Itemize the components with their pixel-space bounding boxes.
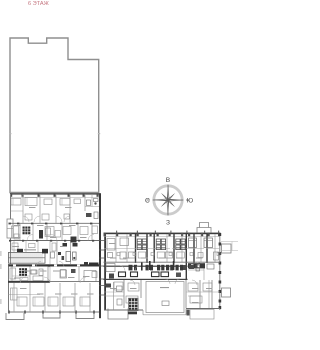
- bath cluster right-mid: [58, 252, 99, 282]
- left wing extra texture: [12, 228, 55, 281]
- right wing room labels: [109, 243, 213, 303]
- compass ring: [154, 186, 182, 214]
- svg-text:Ю: Ю: [187, 197, 194, 204]
- compass axis ticks: [147, 199, 190, 201]
- left wing v-walls corridor zone: [12, 241, 79, 281]
- right wing wardrobe clusters: [137, 239, 185, 258]
- bath cluster top-right: [64, 194, 98, 219]
- left wing room labels: [13, 207, 94, 295]
- svg-text:С: С: [145, 197, 150, 204]
- small boxes above wall: [0, 0, 1, 1]
- right apartment hall marks: [189, 252, 219, 271]
- left wing door arcs: [20, 216, 94, 283]
- right wing door arcs: [120, 262, 202, 285]
- corridor rooms extra marks: [61, 269, 98, 278]
- dark unit E: [71, 237, 77, 243]
- right dimension ticks: [221, 242, 238, 251]
- left wing h-wall y240: [11, 240, 100, 242]
- right wing bottom walls: [104, 309, 220, 311]
- left wing top wall: [10, 193, 100, 194]
- right wing party walls (dark): [136, 234, 208, 280]
- stair top dark blocks: [17, 249, 23, 252]
- elevator hatch: [129, 298, 139, 310]
- left wing corridor wall (dark, right side): [99, 193, 101, 318]
- right wing right wall: [219, 233, 221, 310]
- right wing lower partitions: [124, 280, 212, 308]
- left wing furniture: [10, 198, 98, 307]
- right apartment inner walls: [188, 262, 209, 308]
- corridor dark block row: [129, 265, 184, 271]
- junction double wall: [99, 233, 101, 318]
- right wing small tables: [117, 253, 220, 256]
- left wing bottom outline with balconies: [6, 312, 94, 320]
- left wing dark corridor band y264.5: [9, 264, 100, 266]
- left margin dimension marks: [0, 251, 1, 304]
- left wing h-wall y223: [11, 222, 100, 224]
- left bay window: [7, 219, 13, 238]
- big living room right: [146, 282, 184, 313]
- dark unit D: [31, 270, 37, 274]
- right wing upper beds: [107, 238, 173, 259]
- compass star: [153, 185, 184, 216]
- junction crossing stubs: [99, 241, 106, 296]
- left wing v-walls lower: [14, 283, 90, 312]
- stair label: [24, 249, 36, 250]
- svg-text:6 ЭТАЖ: 6 ЭТАЖ: [28, 1, 50, 7]
- left wing v-walls upper: [23, 194, 85, 223]
- stair shaft left: [9, 252, 46, 263]
- left wing furniture inner lines: [12, 198, 82, 307]
- upper building outline: [10, 38, 99, 193]
- svg-text:З: З: [166, 220, 170, 227]
- entry hall zone 241-252: [12, 241, 56, 264]
- ticks above top wall: [116, 231, 219, 233]
- left wing h-wall y211 (partial): [11, 207, 100, 212]
- left wing v-walls middle: [20, 224, 92, 240]
- bottom-right terrace: [190, 310, 214, 320]
- top wall window piers: [10, 193, 99, 197]
- svg-text:В: В: [166, 177, 171, 184]
- corridor outlined tubs: [119, 272, 169, 277]
- corridor small marks: [106, 261, 186, 279]
- dark sill below elevator: [128, 312, 137, 315]
- right edge tick: [98, 133, 100, 134]
- right wing light partitions upper: [116, 234, 215, 262]
- dark pair blocks y243: [63, 243, 68, 247]
- left edge tick: [9, 133, 11, 134]
- right porch low: [222, 288, 231, 297]
- right wing lower-left rooms: [104, 282, 124, 310]
- dark grid cabinet A: [23, 227, 31, 235]
- right top wall piers: [104, 233, 221, 237]
- right apartment upper beds: [189, 238, 213, 258]
- right apartment entry dark bar: [188, 263, 205, 268]
- dark grid room mid: [19, 268, 27, 276]
- right wing top wall: [104, 233, 221, 235]
- right porch mid: [222, 244, 232, 253]
- left wing partial dark band y281: [8, 281, 50, 283]
- porch above top wall: [197, 223, 211, 233]
- dark unit B: [39, 230, 43, 239]
- junction balcony bottom: [108, 309, 128, 320]
- right wing mid lines: [104, 248, 220, 250]
- right wing corridor band: [104, 266, 188, 267]
- left wing left wall: [9, 194, 11, 313]
- bottom wall piers: [8, 311, 95, 314]
- right wing lower furniture: [114, 282, 212, 303]
